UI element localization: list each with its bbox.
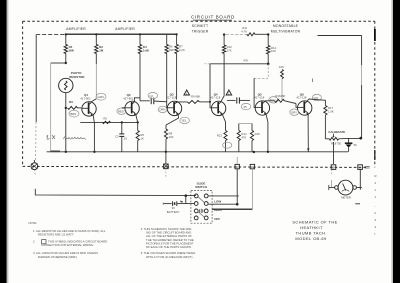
wire: Q6 emitter to ground [307, 113, 309, 152]
wire: left vertical to connector A [35, 35, 37, 122]
svg-text:10K: 10K [279, 65, 284, 69]
svg-text:THUMB TACH: THUMB TACH [296, 230, 326, 235]
svg-text:RESISTORS ARE 1/2 WATT.: RESISTORS ARE 1/2 WATT. [38, 232, 74, 236]
resistor R4 [138, 35, 150, 101]
svg-text:RED: RED [118, 109, 124, 113]
svg-text:AMPLIFIER: AMPLIFIER [115, 27, 135, 31]
svg-text:R9 68K: R9 68K [191, 95, 200, 99]
transistor Q4 [210, 92, 226, 115]
wire: Q5 emitter to ground [266, 113, 268, 152]
ground bus (board) [47, 151, 348, 153]
battery BT1 9V [163, 196, 194, 214]
wire: battery return from connector A [34, 170, 36, 176]
wire: switch row1 to connector D column [208, 195, 239, 197]
resistor R1 [64, 35, 75, 63]
svg-text:15K: 15K [280, 94, 285, 98]
svg-text:C2: C2 [149, 94, 153, 98]
wire: pot wiper leg down to connector B [333, 142, 335, 164]
wire: Q3 base from R6 [166, 104, 169, 108]
connector S (ground exits board) [164, 152, 169, 177]
svg-text:417-118: 417-118 [166, 96, 177, 100]
svg-text:417-118: 417-118 [296, 96, 307, 100]
dashed feed top-left of rail [35, 34, 37, 36]
capacitor C3 (to ground) [115, 122, 127, 151]
wire: Q4 collector column [223, 35, 225, 45]
svg-text:417-801: 417-801 [123, 97, 134, 101]
svg-text:B: B [332, 166, 334, 170]
svg-text:WITH A VTVM (11 MEGOHM INPUT).: WITH A VTVM (11 MEGOHM INPUT). [146, 255, 193, 259]
wire color tag (below Q3) [180, 117, 190, 123]
wire: junction to photocell branch [51, 62, 66, 64]
svg-text:R5: R5 [103, 117, 107, 121]
meter M1 [329, 169, 362, 203]
svg-text:3.9K: 3.9K [143, 48, 150, 52]
svg-text:MARKED OTHERWISE (MMF).: MARKED OTHERWISE (MMF). [38, 255, 78, 259]
svg-text:C3: C3 [115, 134, 119, 138]
wire color tag (C5) [241, 103, 251, 109]
capacitor C5 (Q4/Q5 coupling) [227, 97, 250, 103]
junction dot Q4 base line [209, 101, 211, 103]
wire: right column into diode node [361, 137, 363, 138]
connector B [331, 165, 336, 170]
junction dots on emitter bus [121, 121, 123, 123]
svg-text:OF EACH OF THE PARTS SHOWN.: OF EACH OF THE PARTS SHOWN. [146, 245, 192, 249]
wire: switch HIGH row to connector E [212, 208, 252, 210]
wire color tag (Q6 base) [290, 109, 299, 115]
svg-text:ORN: ORN [159, 108, 165, 112]
resistor R16 (Q3 emitter to ground) [164, 125, 173, 152]
svg-text:METER: METER [341, 196, 351, 200]
wire: R2 into Q1 collector [91, 99, 96, 102]
svg-text:CONNECTION FOR EXTERNAL WIRING: CONNECTION FOR EXTERNAL WIRING. [41, 243, 94, 247]
svg-text:MODEL GB-69: MODEL GB-69 [295, 236, 327, 241]
svg-text:1K: 1K [140, 136, 144, 140]
wire: Q4 base drop from feedback line [210, 64, 211, 108]
wire: photocell column down to ground [65, 108, 67, 152]
potentiometer R18 [325, 134, 341, 146]
wire: link bus above resistors [239, 123, 252, 125]
diode D1 [345, 138, 357, 151]
wire: top right feed [318, 35, 362, 37]
wire color tag (Q1 collector) [96, 93, 106, 100]
wire: Q5 base [254, 104, 255, 108]
svg-text:56: 56 [354, 143, 358, 147]
svg-text:10: 10 [124, 137, 128, 141]
svg-text:AMPLIFIER: AMPLIFIER [66, 27, 86, 31]
wire color tag (above C2) [148, 92, 158, 98]
resistor R8 (Q3 collector to Q4 base) [176, 54, 210, 104]
connector E [250, 164, 254, 169]
svg-text:SWITCH: SWITCH [195, 185, 207, 189]
svg-text:OFF: OFF [214, 217, 220, 221]
svg-text:D: D [236, 165, 238, 169]
resistor R12h (Q5 to Q6 coupling) [265, 94, 296, 103]
transistor Q1 [80, 93, 96, 116]
warning triangle (Q3) [184, 90, 190, 95]
wire: drop to Q5 base [267, 64, 269, 79]
slide switch SW1 [191, 181, 212, 223]
circuit board dashed outline [23, 21, 376, 167]
pencil notation (handwritten) [47, 135, 87, 140]
wire: switch LOW row to connector D [208, 203, 237, 205]
stray tick mark [311, 79, 313, 83]
svg-text:CALIBRATE: CALIBRATE [328, 130, 345, 134]
wire: Q1 emitter bus [80, 121, 137, 123]
svg-text:2.: 2. [33, 239, 36, 243]
wire color tag (Q6) [312, 94, 321, 100]
capacitor C2 (Q2 to Q3 coupling) [134, 98, 166, 105]
svg-text:HEATHKIT: HEATHKIT [300, 225, 323, 230]
wire: Q6 collector to calibrate column [307, 99, 326, 106]
svg-text:E: E [251, 165, 253, 169]
svg-text:10K: 10K [271, 49, 276, 53]
svg-text:GRY: GRY [291, 110, 297, 114]
wire: Q6 base [296, 104, 298, 108]
svg-text:100: 100 [169, 135, 174, 139]
svg-text:1.5K: 1.5K [328, 109, 334, 113]
hash marks right of connector C [365, 167, 370, 168]
resistor R19 (timing, floating column) [279, 65, 284, 101]
resistor R14 [237, 124, 247, 152]
resistor R15 (Q5 base to ground) [250, 124, 260, 152]
svg-text:417-118: 417-118 [210, 96, 221, 100]
NOTE text block [29, 221, 108, 259]
wire: pot output over to right column [339, 137, 361, 139]
svg-text:56K: 56K [69, 48, 75, 52]
connector D [235, 157, 239, 169]
connector A (board edge) [31, 160, 38, 170]
resistor R7 [175, 35, 185, 100]
resistor R6 [165, 35, 174, 104]
svg-text:YEL: YEL [181, 119, 187, 123]
resistor R10 [221, 45, 232, 102]
svg-text:-: - [374, 204, 375, 208]
wire color tag (Q2 base) [117, 108, 126, 114]
svg-text:47K: 47K [243, 58, 248, 62]
wire: Q2 base stub [122, 107, 125, 109]
wire: Q2 emitter to bus [136, 114, 138, 122]
svg-text:CIRCUIT BOARD: CIRCUIT BOARD [191, 15, 235, 20]
svg-text:417-801: 417-801 [80, 96, 91, 100]
svg-text:750: 750 [336, 141, 341, 145]
junction dots on rail [65, 33, 67, 35]
svg-text:TRIGGER: TRIGGER [192, 29, 209, 33]
title block [292, 219, 337, 240]
svg-text:2.2K: 2.2K [179, 48, 185, 52]
svg-text:MULTIVIBRATOR: MULTIVIBRATOR [271, 29, 301, 33]
svg-text:C: C [359, 166, 361, 170]
svg-text:SCHEMATIC OF THE: SCHEMATIC OF THE [292, 219, 337, 224]
svg-text:470: 470 [241, 135, 246, 139]
svg-text:NOTE:: NOTE: [29, 221, 38, 225]
svg-text:RESISTOR: RESISTOR [69, 75, 85, 79]
resistor R9 (collector feed, horizontal) [226, 26, 268, 36]
warning triangle (Q4) [226, 90, 232, 95]
NOTE text block right column [141, 227, 196, 259]
svg-text:4.7K: 4.7K [241, 29, 247, 33]
svg-text:R15: R15 [255, 132, 261, 136]
wire color tag (Q5) [269, 97, 278, 103]
svg-text:27K: 27K [227, 48, 232, 52]
wire color tag (Q3 base) [158, 106, 167, 112]
resistor R17 [324, 106, 334, 139]
wire: feedback line to Q4 base [210, 63, 268, 65]
connector C [358, 165, 363, 170]
transistor Q2 [123, 93, 139, 116]
page edge marks (right margin) [374, 174, 377, 236]
svg-text:.05: .05 [243, 105, 247, 109]
svg-text:GRN: GRN [97, 95, 103, 99]
svg-text:LOW: LOW [214, 200, 221, 204]
svg-text:BRN: BRN [70, 112, 76, 116]
left black page edge [0, 0, 7, 283]
resistor R11 (monostable collector load) [267, 33, 277, 64]
svg-text:MONOSTABLE: MONOSTABLE [273, 24, 299, 28]
wire color tag (Q1 emitter) [69, 110, 79, 117]
svg-text:SCHMITT: SCHMITT [192, 24, 208, 28]
svg-text:417-118: 417-118 [254, 96, 265, 100]
right black page edge [393, 0, 400, 283]
transistor Q3 [166, 92, 182, 115]
resistor R13 (Q4 emitter) [217, 114, 232, 152]
resistor R2 [95, 35, 104, 99]
wire: supply rail feed from left [36, 34, 66, 36]
transistor Q6 [296, 92, 312, 115]
wire: Q3 emitter to R16 [166, 113, 179, 125]
svg-text:R13: R13 [217, 133, 223, 137]
transistor Q5 [254, 92, 269, 115]
photo resistor PC1 [59, 71, 86, 108]
svg-text:BATTERY: BATTERY [167, 210, 180, 214]
resistor R5 (in emitter bus) [103, 117, 111, 124]
wire: top supply rail [66, 33, 177, 35]
svg-text:39K: 39K [169, 48, 174, 52]
resistor R7B (Q2 emitter to ground) [136, 122, 144, 151]
svg-text:1M: 1M [99, 48, 104, 52]
wire: bus drop to ground [93, 122, 95, 151]
resistor R3 (base of Q1) [65, 100, 81, 109]
